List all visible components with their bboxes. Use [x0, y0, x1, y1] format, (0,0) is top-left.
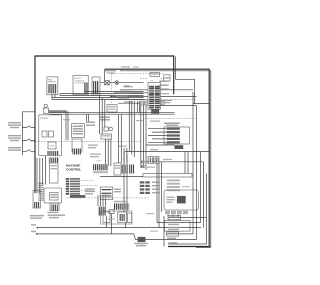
- wire P3 left leads with labels: [110, 86, 148, 103]
- label oven light: [105, 70, 116, 74]
- left selector bus: [22, 112, 35, 155]
- machine control left vertical bundle: [37, 156, 45, 193]
- label S1: [8, 122, 21, 128]
- wire P3 right lead row A: [161, 89, 194, 91]
- connector pins of U1: [84, 83, 88, 95]
- wire latch double lead: [49, 111, 67, 112]
- connector pins of K1: [48, 84, 57, 93]
- bottom right row 4: [166, 232, 193, 236]
- wire right nest vertical V5: [206, 174, 208, 245]
- pin text column left of frame-mid: [160, 81, 169, 95]
- label S2: [8, 135, 21, 141]
- vertical pair to latch: [66, 111, 68, 140]
- oven lamp assembly: [114, 163, 134, 175]
- high speed oven relay box: [72, 124, 85, 138]
- svg-text:COM: COM: [49, 146, 54, 148]
- bottom right row 1: [168, 216, 207, 220]
- terminal strip TB1: [164, 127, 190, 144]
- connector block below board: [49, 158, 60, 184]
- wire N perimeter rail: [105, 69, 210, 246]
- blower box BLW: [174, 145, 183, 149]
- inner relay boxes: [42, 131, 54, 137]
- COM terminal mid: [93, 161, 108, 174]
- two speed fan box: [165, 220, 191, 231]
- label S3: [8, 147, 21, 151]
- wire bundle top row 2: [60, 93, 144, 95]
- label pressure switch block: [164, 123, 180, 127]
- dashed enclosure oven lamp circuit: [112, 74, 164, 105]
- box mid nest corner: [123, 152, 125, 213]
- door switch connector pins: [98, 207, 106, 216]
- diode CR1: [104, 127, 108, 131]
- bottom right row 2: [157, 222, 201, 224]
- connector P3: [148, 73, 161, 110]
- machine control main bus: [49, 113, 175, 115]
- convection box: [164, 190, 198, 210]
- door lock unit: [33, 191, 41, 208]
- connector pins below relay box: [72, 139, 82, 155]
- bundle ladder ties: [38, 182, 43, 201]
- long line N bottom: [36, 233, 138, 240]
- wires TB1 to left: [148, 129, 167, 143]
- vertical left edge of rows: [163, 216, 165, 247]
- wire node branch to fuse F1: [104, 69, 106, 80]
- wire mid feed: [146, 161, 204, 163]
- junction box small: [101, 134, 112, 139]
- long line L1 bottom: [37, 214, 201, 234]
- verticals into band: [185, 152, 188, 174]
- wire right nest vertical V3: [200, 152, 202, 223]
- thermostat label: [114, 201, 127, 202]
- wire right loop inner: [175, 79, 194, 103]
- COM terminal box: [48, 142, 56, 149]
- relay box K1: [47, 77, 58, 95]
- oven light fixture box: [107, 105, 117, 113]
- vertical bundle lamp: [119, 115, 127, 164]
- mot label: [59, 215, 65, 216]
- clean lamp label: [114, 189, 121, 193]
- MACHINE CONTROL title: [66, 164, 81, 172]
- connector pins bottom of board: [47, 151, 59, 156]
- wire N bottom continue: [146, 239, 197, 241]
- pin number smudge P3 right: [159, 81, 167, 90]
- lamp DS1: [115, 81, 119, 85]
- wire nut label: [85, 188, 95, 194]
- door switch stack: [103, 212, 132, 223]
- wire right nest vertical V2: [196, 106, 198, 240]
- conv fan connector: [48, 203, 60, 213]
- wire P3 right lead row C dashed: [161, 99, 197, 101]
- TOD boxes: [148, 157, 159, 164]
- dashed mid separator: [30, 140, 140, 142]
- thermostat box: [109, 203, 129, 213]
- scattered wire labels: [31, 66, 190, 232]
- aux box on dashed edge: [164, 75, 170, 81]
- fuse F1: [105, 81, 110, 85]
- wire bundle top row 3: [60, 95, 144, 97]
- machine control board outline: [39, 115, 62, 155]
- svg-text:COM: COM: [96, 161, 101, 163]
- oven door label: [48, 215, 61, 219]
- switch S3: [22, 150, 35, 152]
- door switch enclosure: [101, 211, 133, 224]
- wire lower oven feed: [125, 151, 210, 153]
- vertical bundle to door sw: [98, 195, 106, 206]
- wire bundle top row 5: [52, 99, 144, 101]
- wire L1 perimeter rail: [35, 56, 174, 193]
- legend dashed line: [66, 197, 150, 199]
- door lock label: [30, 215, 44, 219]
- wire bundle top row 4: [52, 97, 144, 99]
- wire lamp feed: [100, 82, 144, 84]
- wire bundle top row 1: [85, 91, 144, 93]
- wire label smudge row B: [86, 122, 95, 127]
- relay K2 on bus: [151, 109, 159, 114]
- label pressure sw feed: [152, 100, 172, 101]
- door latch motor B1: [43, 104, 48, 113]
- connector J2: [92, 77, 100, 95]
- bottom right row 5 label: [167, 238, 176, 239]
- svg-text:CONTROL: CONTROL: [66, 167, 81, 171]
- legend rows: [66, 178, 80, 195]
- wire stub from K1 pins: [52, 93, 60, 99]
- wire corner double vertical: [174, 56, 176, 79]
- connector stubs: [168, 215, 178, 217]
- wire right nest vertical V1: [192, 92, 194, 234]
- control module U1: [73, 76, 88, 95]
- wire drops to labels: [87, 114, 89, 121]
- vertical x161: [161, 162, 163, 212]
- vertical bundle right of center: [129, 101, 134, 157]
- wire to band: [100, 176, 143, 178]
- clean lamp block: [100, 187, 113, 200]
- band box cooktop: [143, 174, 192, 178]
- wire oven feed: [145, 118, 197, 120]
- legend dark row: [70, 195, 85, 198]
- dashed enclosure segment: [140, 77, 170, 79]
- bottom right row 6: [168, 242, 207, 244]
- wire right nest top edge: [193, 103, 210, 105]
- conv bottom connector row: [165, 211, 188, 214]
- wire label smudge row A: [100, 117, 110, 121]
- wire blower lead: [146, 144, 174, 146]
- vertical bundle center mid: [106, 139, 111, 166]
- grid A labels: [152, 182, 160, 194]
- TOD timer box: [134, 237, 148, 247]
- svg-text:CONTROL: CONTROL: [75, 81, 86, 83]
- connector grid A: [140, 181, 150, 194]
- connector grid B: [167, 180, 180, 192]
- vertical pair far: [138, 101, 140, 113]
- vertical bundle P4 down: [141, 105, 146, 170]
- switch S1: [22, 126, 35, 128]
- legend leader dashes: [81, 180, 98, 190]
- switch S2: [22, 139, 35, 141]
- connector row P4: [140, 101, 164, 105]
- vertical pair from TOD: [157, 163, 159, 227]
- wire L2 parallel rail: [120, 71, 211, 248]
- pin cells left column: [140, 161, 145, 169]
- wire right nest edge B: [158, 105, 197, 107]
- label 24A: [124, 85, 130, 87]
- vertical bundle center left: [100, 96, 105, 135]
- wire P3 right lead row B: [161, 95, 197, 97]
- pin rows of P3: [149, 88, 160, 106]
- box mid nest corner inner: [126, 155, 128, 213]
- motor M2: [109, 127, 113, 131]
- conv fan motor box: [44, 188, 62, 203]
- wire right nest vertical V4: [203, 162, 205, 228]
